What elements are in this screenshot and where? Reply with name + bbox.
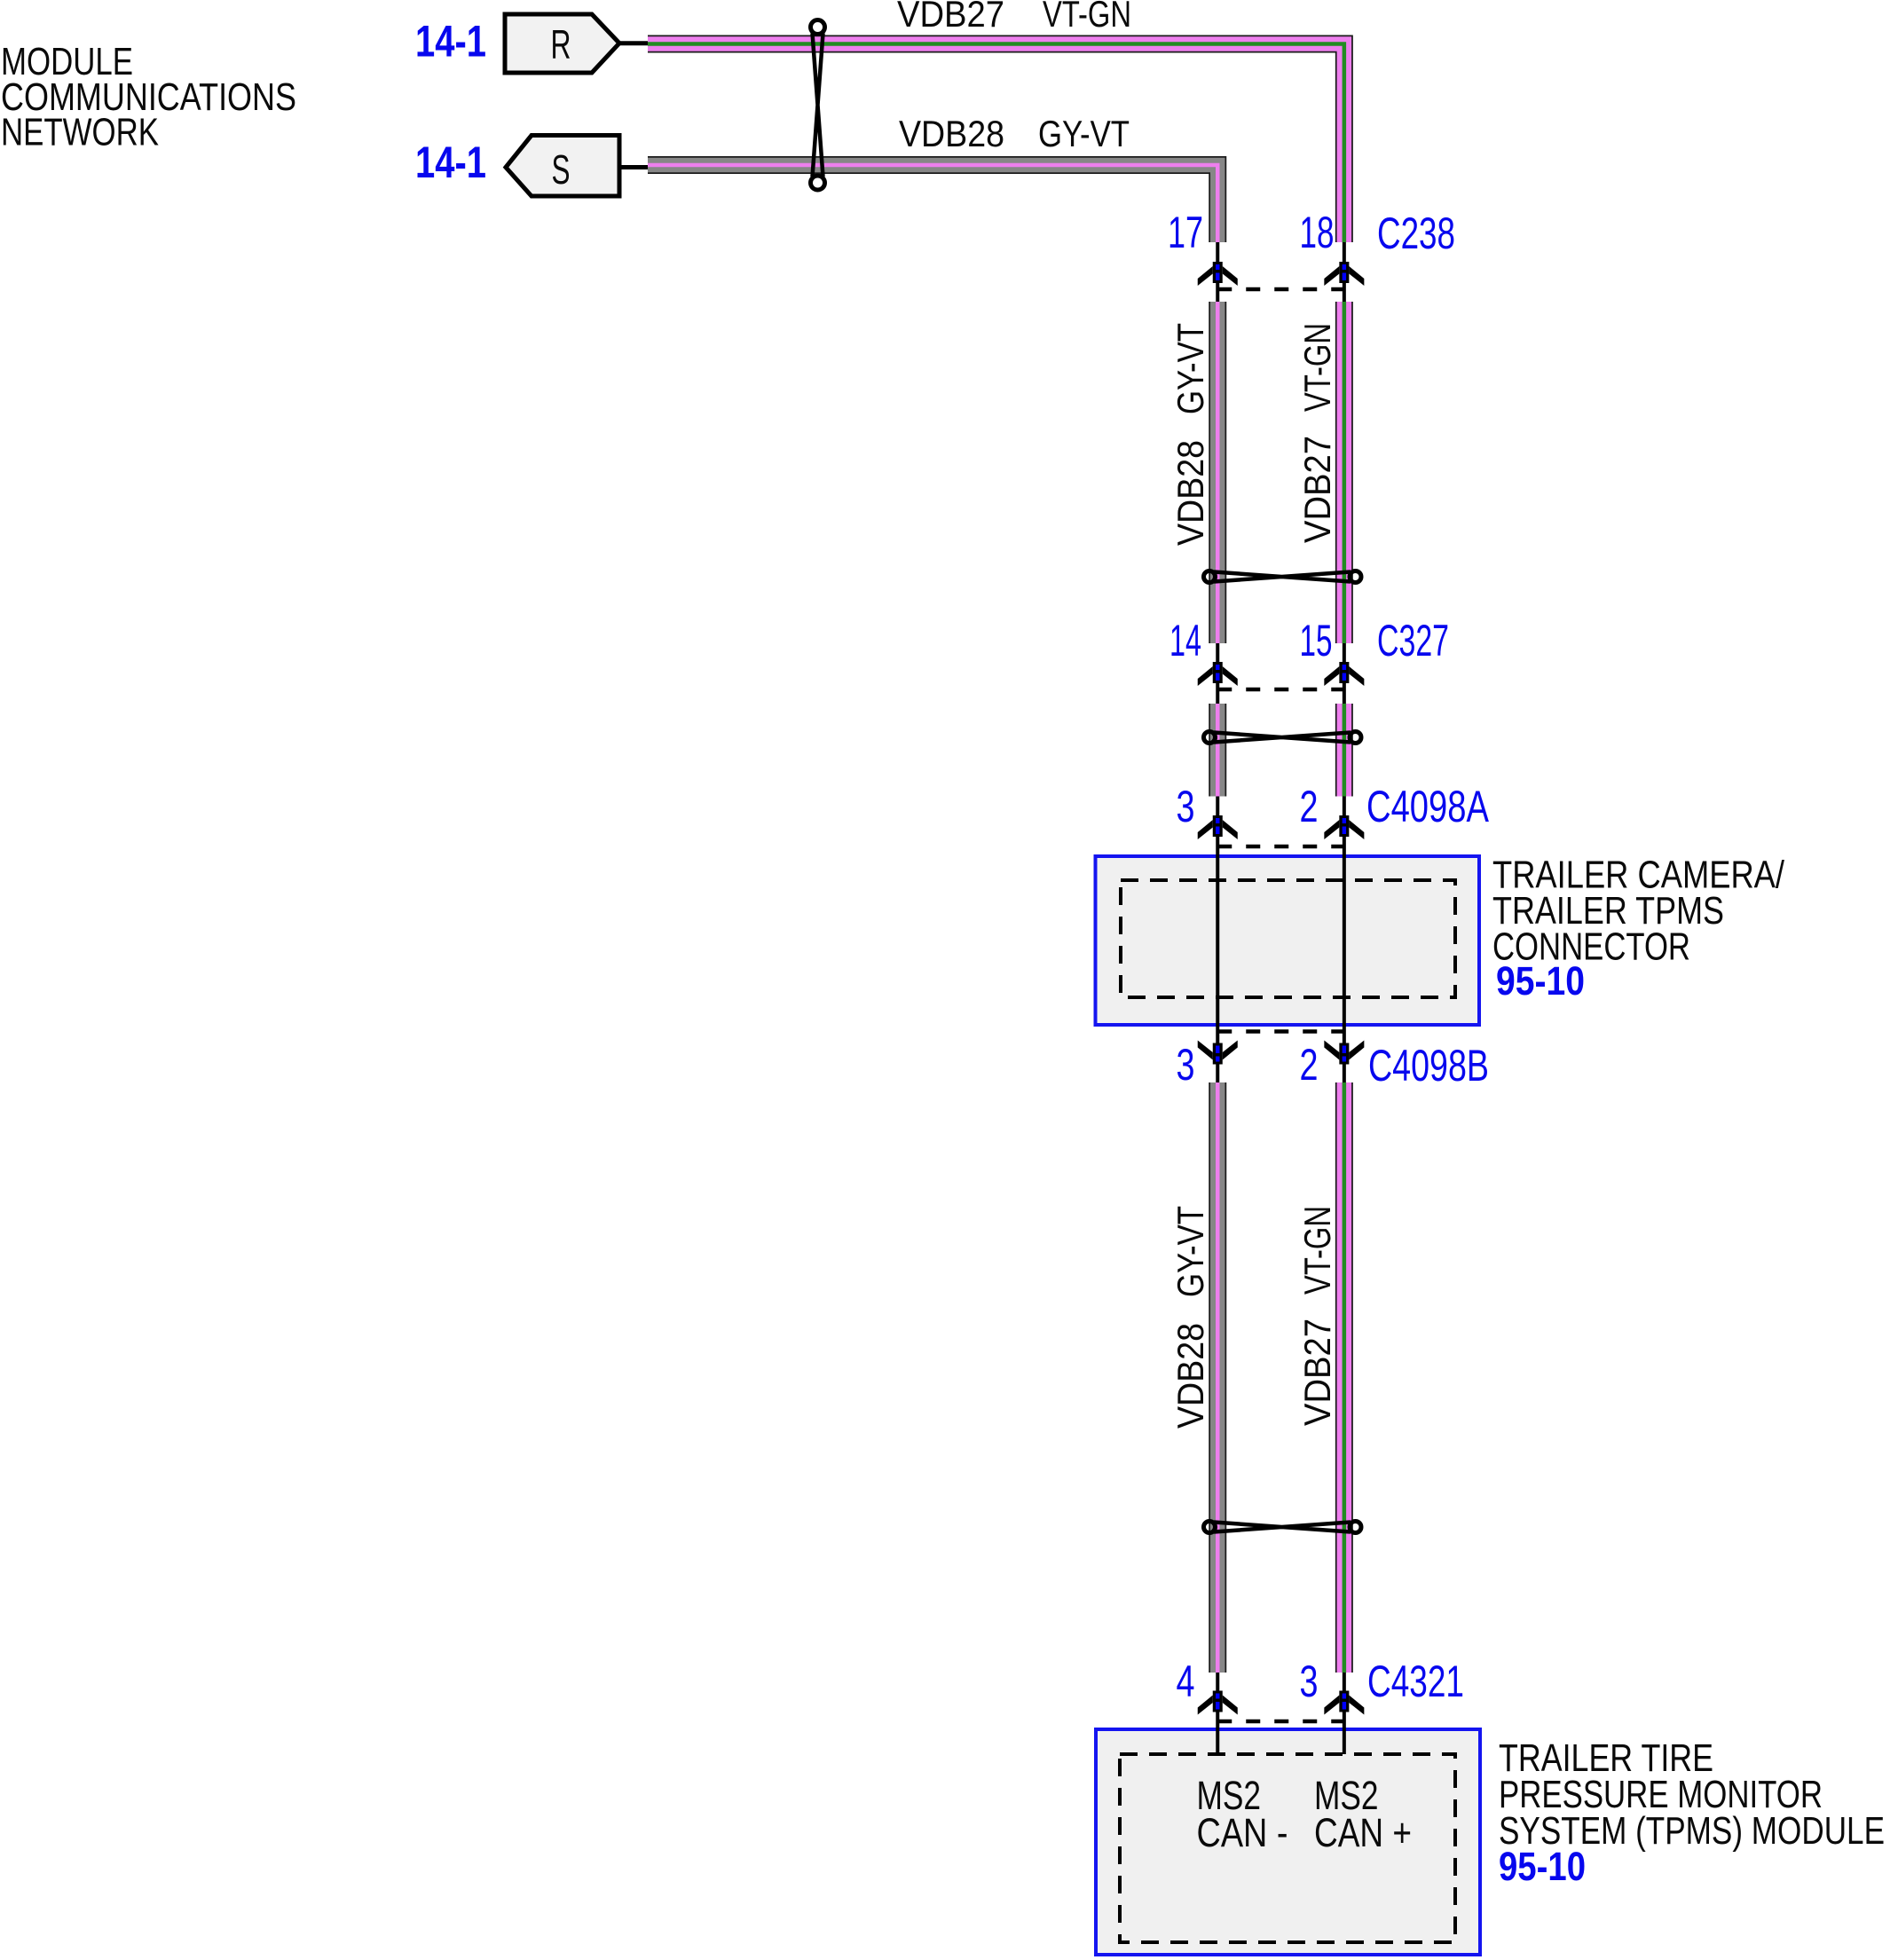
svg-text:14-1: 14-1	[415, 138, 486, 187]
pin name MS2 CAN + (right, pin 3)	[1314, 1773, 1412, 1855]
twisted pair symbol between C4098B and C4321	[1204, 1522, 1362, 1533]
pin arrow 17 at C238	[1198, 262, 1238, 286]
svg-text:C4098B: C4098B	[1368, 1041, 1489, 1090]
svg-text:VDB28: VDB28	[899, 113, 1004, 154]
connector arrow S (to 14-1)	[506, 136, 619, 197]
svg-text:VT-GN: VT-GN	[1043, 0, 1131, 35]
connector C4321 dashed boundary line	[1217, 1720, 1344, 1724]
pin lead line (thin) for VDB27 circuit, x=1515	[1343, 240, 1346, 1754]
svg-text:CAN +: CAN +	[1314, 1810, 1412, 1855]
svg-text:VDB28: VDB28	[1169, 1323, 1211, 1429]
twisted pair symbol on horizontal wires	[811, 20, 825, 191]
pin arrow 4 at C4321	[1198, 1691, 1238, 1715]
svg-text:3: 3	[1177, 782, 1195, 831]
title MODULE COMMUNICATIONS NETWORK	[1, 40, 296, 154]
svg-text:18: 18	[1300, 208, 1335, 257]
inner dashed rect of trailer camera connector box	[1121, 880, 1455, 997]
pin name MS2 CAN - (left, pin 4)	[1197, 1773, 1288, 1855]
inner dashed rect of TPMS module box	[1120, 1754, 1455, 1942]
svg-text:15: 15	[1300, 616, 1333, 665]
stub line from connector arrow R to wire	[618, 41, 650, 45]
svg-text:R: R	[551, 21, 571, 67]
pin arrow 14 at C327	[1198, 662, 1238, 686]
connector C327 dashed boundary line	[1217, 688, 1344, 692]
pin arrow 3 at C4321	[1324, 1691, 1364, 1715]
connector C4098B dashed boundary line	[1217, 1029, 1344, 1034]
svg-text:17: 17	[1168, 208, 1203, 257]
svg-text:C238: C238	[1377, 209, 1455, 258]
rotated wire label VDB28 GY-VT (section C238-C327)	[1169, 323, 1211, 546]
svg-text:S: S	[552, 146, 571, 193]
svg-text:VDB27: VDB27	[1296, 436, 1338, 543]
pin arrow 2 at C4098A	[1324, 815, 1364, 839]
pin arrow 15 at C327	[1324, 662, 1364, 686]
component box: TRAILER TIRE PRESSURE MONITOR SYSTEM (TPMS) MODULE	[1096, 1729, 1480, 1955]
svg-text:C4098A: C4098A	[1366, 782, 1489, 831]
svg-text:GY-VT: GY-VT	[1169, 323, 1211, 414]
svg-text:3: 3	[1300, 1657, 1319, 1706]
pin arrow 3 at C4098A	[1198, 815, 1238, 839]
connector C238 dashed boundary line	[1217, 287, 1344, 292]
svg-text:4: 4	[1177, 1657, 1195, 1706]
svg-text:VDB27: VDB27	[897, 0, 1004, 35]
box1 side text TRAILER CAMERA / TRAILER TPMS CONNECTOR	[1492, 854, 1785, 969]
box2 side text TRAILER TIRE PRESSURE MONITOR SYSTEM (TPMS) MODULE	[1499, 1736, 1885, 1853]
connector C4098A dashed boundary line	[1217, 845, 1344, 849]
wire VDB28 segment C4098B to C4321	[1209, 1082, 1226, 1673]
svg-text:14: 14	[1169, 616, 1201, 665]
svg-text:GY-VT: GY-VT	[1038, 113, 1130, 154]
svg-text:NETWORK: NETWORK	[1, 111, 159, 154]
pin arrow 3 at C4098B (down)	[1198, 1041, 1238, 1065]
rotated wire label VDB28 GY-VT (section C4098B-C4321)	[1169, 1206, 1211, 1429]
wire VDB27 VT-GN from R to C238 pin 18 (horizontal + corner down)	[648, 44, 1344, 243]
svg-text:GY-VT: GY-VT	[1169, 1206, 1211, 1297]
svg-text:C327: C327	[1377, 616, 1449, 665]
svg-text:14-1: 14-1	[415, 17, 486, 67]
wire VDB27 segment C327 to C4098A	[1335, 704, 1353, 797]
svg-text:VDB28: VDB28	[1169, 440, 1211, 546]
svg-text:VDB27: VDB27	[1296, 1318, 1338, 1426]
stub line from connector arrow S to wire	[618, 165, 650, 169]
twisted pair symbol between C327 and C4098A	[1204, 732, 1362, 744]
svg-text:3: 3	[1177, 1040, 1195, 1090]
svg-text:CAN -: CAN -	[1197, 1810, 1288, 1855]
rotated wire label VDB27 VT-GN (section C4098B-C4321)	[1296, 1206, 1338, 1426]
wire label VDB27 VT-GN (top)	[897, 0, 1131, 35]
pin arrow 18 at C238	[1324, 262, 1364, 286]
svg-text:2: 2	[1300, 782, 1319, 831]
svg-text:VT-GN: VT-GN	[1296, 1206, 1338, 1295]
twisted pair symbol between C238 and C327	[1204, 571, 1362, 583]
connector arrow R (to 14-1)	[505, 14, 619, 73]
wire VDB27 segment C238 to C327	[1335, 302, 1353, 643]
wire label VDB28 GY-VT (top)	[899, 113, 1130, 154]
component box: TRAILER CAMERA / TRAILER TPMS CONNECTOR C4098	[1096, 856, 1480, 1025]
svg-text:2: 2	[1300, 1040, 1319, 1090]
svg-text:VT-GN: VT-GN	[1296, 323, 1338, 412]
rotated wire label VDB27 VT-GN (section C238-C327)	[1296, 323, 1338, 543]
wire VDB28 segment C327 to C4098A	[1209, 704, 1226, 797]
wire VDB28 segment C238 to C327	[1209, 302, 1226, 643]
pin arrow 2 at C4098B (down)	[1324, 1041, 1364, 1065]
svg-text:95-10: 95-10	[1496, 958, 1585, 1004]
svg-text:C4321: C4321	[1367, 1657, 1464, 1706]
pin lead line (thin) for VDB28 circuit, x=1372	[1216, 240, 1219, 1754]
wire VDB28 GY-VT from S to C238 pin 17 (horizontal + corner down)	[648, 165, 1217, 242]
svg-text:95-10: 95-10	[1499, 1844, 1586, 1889]
wire VDB27 segment C4098B to C4321	[1335, 1082, 1353, 1673]
